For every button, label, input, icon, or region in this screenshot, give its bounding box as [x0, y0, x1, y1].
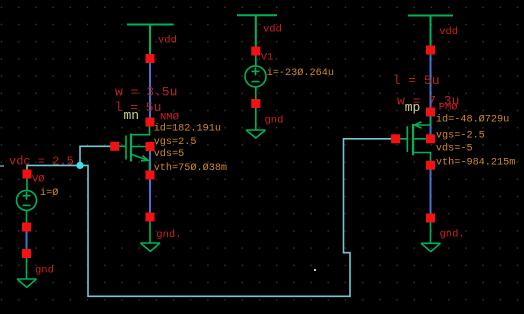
junction dot: [76, 162, 83, 169]
wire PMOS source to bulk: [430, 112, 432, 139]
gnd symbol (middle branch): [246, 104, 266, 139]
stray wire tick at left edge: [0, 165, 4, 167]
pin gnd-nmos: [146, 213, 155, 222]
wire vdd pin to PMOS source: [430, 50, 432, 112]
svg-text:gnd: gnd: [35, 264, 54, 276]
gnd symbol (below nmos): [141, 217, 161, 251]
svg-text:vdd: vdd: [158, 35, 177, 47]
svg-text:vth=75Ø.Ø38m: vth=75Ø.Ø38m: [154, 162, 227, 174]
svg-text:PMØ: PMØ: [439, 101, 458, 113]
svg-text:gnd: gnd: [265, 115, 284, 127]
svg-text:vdc = 2.5: vdc = 2.5: [9, 154, 74, 168]
pin nmos gate: [110, 142, 119, 151]
svg-text:gnd.: gnd.: [440, 229, 465, 241]
svg-text:mp: mp: [405, 100, 421, 115]
pin V0 plus: [23, 170, 32, 179]
pin vdd-left: [146, 54, 155, 63]
wire PMOS drain to gnd: [430, 165, 432, 218]
wire vdd pin to NMOS drain: [149, 59, 151, 123]
svg-text:vds=-5: vds=-5: [436, 142, 473, 154]
voltage source V1 (with current annotation): [245, 51, 266, 104]
wire net junction to NMOS gate: [80, 146, 115, 165]
pin pmos source: [426, 108, 435, 117]
pin nmos bulk: [146, 142, 155, 151]
svg-text:VØ: VØ: [32, 173, 45, 185]
vdd symbol (middle branch): [237, 15, 277, 51]
bright grid dot: [314, 269, 316, 271]
pin vdd-right: [426, 46, 435, 55]
svg-text:vdd: vdd: [439, 26, 458, 38]
nmos transistor mn / NM0: [115, 122, 150, 175]
svg-text:V1: V1: [261, 51, 274, 63]
svg-text:l = 5u: l = 5u: [393, 73, 440, 88]
pin pmos bulk: [426, 134, 435, 143]
svg-text:id=182.191u: id=182.191u: [154, 123, 221, 135]
wire net from V0 plus to junction: [27, 165, 80, 171]
svg-text:vgs=2.5: vgs=2.5: [154, 137, 197, 148]
svg-text:NMØ: NMØ: [160, 112, 179, 124]
svg-text:i=-23Ø.264u: i=-23Ø.264u: [267, 67, 334, 79]
svg-text:i=Ø: i=Ø: [40, 187, 58, 199]
pin pmos drain: [426, 161, 435, 170]
svg-text:w = 3.5u: w = 3.5u: [115, 85, 177, 100]
gnd symbol (below pmos): [421, 218, 441, 252]
wire NMOS bulk to source: [149, 147, 151, 176]
gnd symbol (below V0): [17, 254, 37, 288]
pin vdd-middle: [251, 47, 260, 56]
svg-text:mn: mn: [124, 108, 140, 123]
pin pmos gate: [391, 134, 400, 143]
svg-text:id=-48.Ø729u: id=-48.Ø729u: [436, 114, 509, 126]
vdd symbol (left branch): [127, 25, 174, 59]
pin nmos drain: [146, 118, 155, 127]
svg-text:vdd: vdd: [263, 24, 282, 36]
voltage source V0 (vdc=2.5): [17, 174, 37, 227]
pmos transistor mp / PM0: [396, 112, 431, 165]
vdd symbol (right branch): [408, 16, 453, 51]
pin V1 minus / gnd-middle: [251, 99, 260, 108]
pin nmos source: [146, 171, 155, 180]
svg-text:vgs=-2.5: vgs=-2.5: [436, 131, 485, 142]
pin gnd-V0: [22, 249, 31, 258]
svg-text:vds=5: vds=5: [154, 148, 185, 160]
svg-text:vth=-984.215m: vth=-984.215m: [436, 157, 515, 169]
pin gnd-pmos: [426, 214, 435, 223]
wire net junction to PMOS gate (bottom route): [80, 139, 396, 296]
pin V0 minus: [22, 223, 31, 232]
wire NMOS source to gnd: [149, 175, 151, 217]
svg-text:gnd.: gnd.: [156, 229, 181, 241]
wire V0 minus to gnd: [26, 227, 28, 254]
